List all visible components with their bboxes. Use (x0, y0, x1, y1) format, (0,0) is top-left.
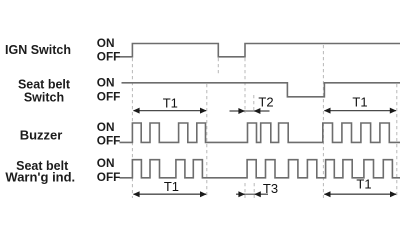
svg-text:T1: T1 (164, 179, 179, 194)
svg-text:OFF: OFF (97, 170, 121, 184)
svg-text:T3: T3 (263, 181, 278, 196)
svg-text:Switch: Switch (24, 90, 64, 104)
svg-text:ON: ON (97, 120, 115, 134)
svg-text:OFF: OFF (97, 90, 121, 104)
svg-text:OFF: OFF (97, 133, 121, 147)
svg-text:T1: T1 (163, 96, 178, 111)
svg-text:ON: ON (97, 76, 115, 90)
svg-text:ON: ON (97, 156, 115, 170)
svg-text:Buzzer: Buzzer (20, 127, 63, 142)
svg-text:Warn'g ind.: Warn'g ind. (5, 170, 75, 185)
svg-text:T2: T2 (258, 95, 273, 110)
svg-text:OFF: OFF (97, 50, 121, 64)
svg-text:T1: T1 (356, 177, 371, 192)
svg-text:ON: ON (97, 36, 115, 50)
svg-text:IGN Switch: IGN Switch (5, 43, 71, 57)
svg-text:T1: T1 (352, 95, 367, 110)
